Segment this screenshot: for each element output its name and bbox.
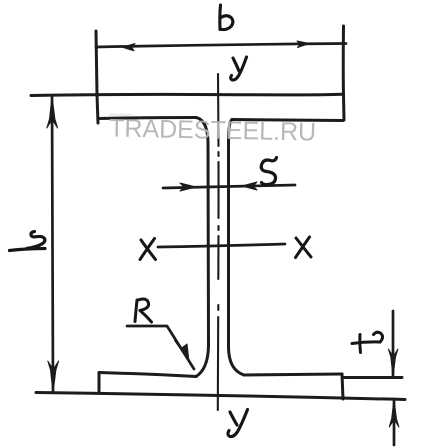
wire top flange bottom edge left part (98, 118, 196, 119)
wire web left edge (207, 142, 211, 346)
wire t dimension line upper segment (392, 311, 395, 376)
wire top flange top edge with h top extension line (31, 94, 342, 95)
wire bottom flange top edge right part (244, 374, 342, 375)
arrow R leader (175, 341, 190, 362)
wire t top extension line (343, 376, 402, 379)
wire top flange bottom edge right part (232, 120, 343, 121)
wire h dimension line (52, 96, 53, 391)
label X right (296, 237, 312, 258)
wire web right edge (227, 141, 230, 348)
label R (135, 299, 152, 322)
svg-text:TRADESTEEL.RU: TRADESTEEL.RU (109, 115, 317, 147)
wire bottom-right web fillet (229, 348, 245, 375)
arrow S right (242, 182, 257, 190)
arrow t lower (points up) (389, 399, 399, 427)
watermark TRADESTEEL.RU (109, 114, 132, 117)
arrow S left (180, 183, 196, 191)
wire bottom flange left edge (98, 373, 101, 394)
wire bottom flange right edge (342, 374, 343, 399)
label h (rotated) (10, 232, 46, 251)
wire right b extension and top flange right edge (342, 26, 346, 120)
label t (rotated) (352, 332, 383, 352)
label X left (140, 239, 156, 260)
wire bottom flange top edge left part (99, 373, 196, 377)
node x-x axis line (158, 244, 285, 247)
arrow b right (297, 41, 310, 48)
wire bottom-left web fillet (196, 346, 209, 377)
wire top-right web fillet (229, 120, 233, 142)
wire S dimension line (163, 185, 295, 188)
wire t dimension line lower segment (393, 399, 396, 445)
wire top-left web fillet (196, 118, 208, 143)
arrow h top (47, 96, 58, 128)
node y-y vertical centerline (dash-dot) (217, 74, 220, 410)
arrow h bottom (48, 361, 59, 393)
label S (261, 158, 276, 185)
wire left b extension and top flange left edge (96, 31, 98, 123)
wire b dimension line (96, 44, 346, 48)
wire R leader line (127, 326, 194, 369)
wire bottom flange bottom edge with h and t extensions (36, 393, 405, 400)
label b (220, 5, 233, 30)
arrow t upper (points down) (388, 349, 398, 377)
label y top (231, 57, 247, 80)
label y bottom (228, 410, 248, 437)
arrow b left (123, 44, 136, 51)
